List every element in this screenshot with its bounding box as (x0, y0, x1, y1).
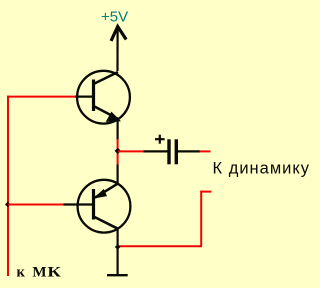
wire: red lead to speaker (200, 150, 211, 152)
arrowhead (112, 27, 126, 40)
wire: red horizontal to output node (118, 245, 202, 247)
transistor Q1 (NPN, top) (75, 71, 130, 124)
wire: black lead from capacitor right plate (178, 150, 200, 152)
Q2 collector lead (94, 217, 119, 229)
node: junction on left rail (5, 202, 11, 208)
Q1 base lead (75, 95, 92, 97)
C1 right plate (175, 139, 178, 164)
wire: rail red segment at cap node (117, 139, 119, 165)
svg-text:М: М (32, 265, 46, 281)
wire: rail Q1 emitter down (black) (116, 120, 118, 141)
capacitor C1 plates (169, 139, 176, 164)
wire: left red rail vertical (7, 96, 9, 276)
Q1 collector lead (94, 72, 119, 84)
wire: red branch to Q1 base (7, 96, 75, 98)
Q2 base bar (92, 189, 95, 220)
wire: black lead to capacitor left plate (144, 150, 168, 152)
svg-text:к: к (17, 265, 26, 281)
Q1 envelope circle (77, 71, 130, 124)
wire: +5V to Q1 collector (116, 27, 118, 71)
wire: red stub at speaker return (200, 191, 211, 193)
Q1 emitter arrowhead (107, 113, 120, 122)
+5V supply arrow (112, 27, 126, 72)
polarity plus sign of C1 (155, 135, 165, 144)
ground (107, 274, 128, 276)
node: capacitor junction (115, 148, 121, 154)
Q2 envelope circle (78, 180, 131, 233)
Q2 emitter lead (95, 183, 118, 197)
wire: red vertical speaker return (200, 191, 202, 247)
svg-text:К динамику: К динамику (213, 160, 311, 178)
svg-text:К: К (47, 265, 61, 281)
svg-text:+5V: +5V (101, 9, 128, 26)
wire: red branch to Q2 base (8, 204, 64, 206)
wire: red lead from node to capacitor (118, 150, 144, 152)
wire: rail black down to Q2 emitter (116, 165, 118, 185)
Q2 emitter arrowhead (95, 190, 107, 198)
Q1 emitter lead (94, 106, 120, 120)
wire: stem to ground (116, 248, 118, 275)
wire: Q2 collector down to output node (116, 229, 118, 249)
C1 left plate (167, 139, 170, 164)
Q2 base lead (64, 203, 93, 205)
transistor Q2 (PNP, bottom) (64, 180, 131, 233)
Q1 base bar (92, 80, 95, 112)
node: output junction (115, 244, 121, 250)
